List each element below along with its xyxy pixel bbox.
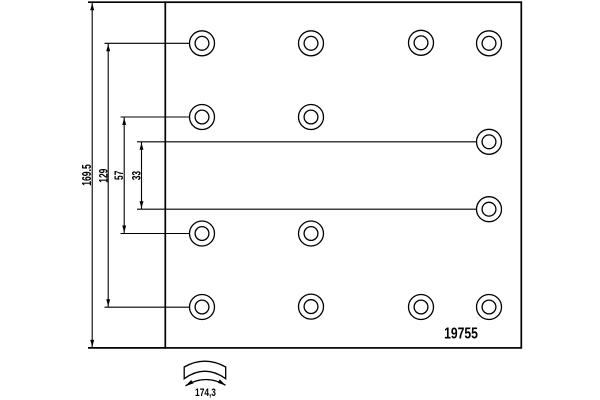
svg-text:169.5: 169.5	[81, 164, 95, 185]
svg-text:57: 57	[114, 170, 127, 180]
svg-text:129: 129	[98, 169, 111, 183]
svg-text:33: 33	[131, 171, 144, 181]
svg-text:174,3: 174,3	[195, 387, 216, 399]
svg-text:19755: 19755	[444, 325, 478, 343]
